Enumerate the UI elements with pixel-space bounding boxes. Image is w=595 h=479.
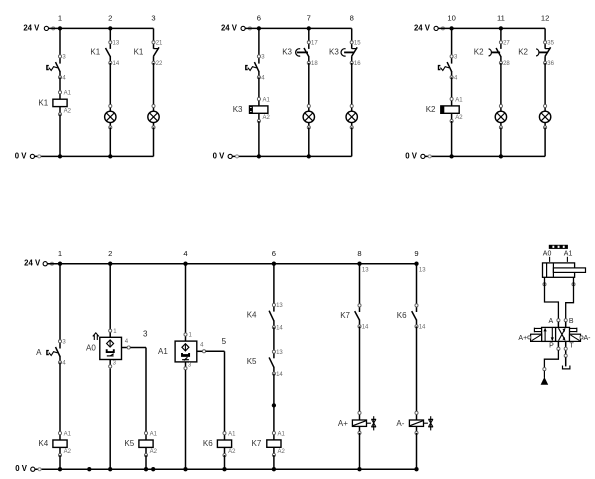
pushbutton S3 pins 3-4 <box>439 55 459 82</box>
node: junction col8/0V <box>357 467 361 471</box>
indicator lamp H1 <box>105 104 116 129</box>
svg-text:24 V: 24 V <box>23 23 40 32</box>
node: junction col9/24V <box>414 262 418 266</box>
wire: column 6 rail to pushbutton <box>258 28 260 56</box>
node: junction col10/24V <box>449 26 453 30</box>
24V supply terminal lower circuit <box>24 259 53 268</box>
svg-text:P: P <box>549 342 554 349</box>
wire: col1 rail to pushbutton A <box>59 264 61 342</box>
node: rail segment junction <box>151 467 155 471</box>
wire: 0V rail circuit 3 <box>425 155 545 157</box>
wire: contact K5 down to coil K7 <box>273 374 275 433</box>
svg-text:0 V: 0 V <box>15 464 28 473</box>
wire: cylinder right port to valve port B <box>566 277 574 318</box>
node: junction col1/0V <box>58 467 62 471</box>
svg-text:36: 36 <box>547 61 554 67</box>
wire: column 11 rail to contact <box>500 28 502 42</box>
valve port B <box>564 318 574 328</box>
0V supply terminal circuit 1 <box>15 151 41 160</box>
svg-text:A1: A1 <box>150 431 158 437</box>
exhaust outlet <box>563 366 570 369</box>
wire: lamp to 0V rail <box>153 127 155 156</box>
svg-text:9: 9 <box>414 249 418 258</box>
node: junction col1/24V <box>58 26 62 30</box>
svg-text:A1: A1 <box>64 91 72 97</box>
node: junction col6/24V <box>257 26 261 30</box>
wire: lamp to 0V rail <box>544 127 546 156</box>
node: rail segment junction <box>87 467 91 471</box>
wire: contact K4 to contact K5 <box>273 327 275 352</box>
svg-text:K5: K5 <box>247 357 257 366</box>
svg-text:K7: K7 <box>252 439 262 448</box>
wire: column 7 rail to contact <box>308 28 310 42</box>
node: junction col11/0V <box>499 154 503 158</box>
wire: col2 rail to sensor A0 <box>109 264 111 331</box>
svg-text:24 V: 24 V <box>24 259 41 268</box>
valve solenoid A+ <box>338 411 376 434</box>
24V supply terminal circuit 3 <box>414 23 444 32</box>
wire: port P to pressure source <box>544 350 558 367</box>
wire: lamp to 0V rail <box>308 127 310 156</box>
svg-text:K2: K2 <box>426 105 436 114</box>
wire: coil K7 to 0V rail <box>273 455 275 469</box>
relay coil K1 A1-A2 <box>38 91 71 116</box>
svg-text:K5: K5 <box>124 439 134 448</box>
node: junction col4/24V <box>183 262 187 266</box>
svg-text:K3: K3 <box>282 48 292 57</box>
svg-text:24 V: 24 V <box>221 23 238 32</box>
wire: coil K2 to 0V rail <box>451 121 453 156</box>
svg-text:11: 11 <box>497 14 505 23</box>
svg-text:8: 8 <box>350 14 354 23</box>
svg-text:A0: A0 <box>86 343 96 352</box>
NC contact K1 pins 21-22 <box>134 41 163 68</box>
svg-text:K3: K3 <box>233 105 243 114</box>
wire: lamp to 0V rail <box>351 127 353 156</box>
svg-text:8: 8 <box>357 249 361 258</box>
svg-text:A: A <box>36 348 42 357</box>
node: junction col6/0V <box>272 467 276 471</box>
position arrow marker at A0 <box>93 333 99 340</box>
svg-text:B: B <box>569 318 574 325</box>
node: junction col6/24V <box>272 262 276 266</box>
svg-text:A: A <box>549 318 554 325</box>
node: junction col5/0V <box>222 467 226 471</box>
node: junction col10/0V <box>449 154 453 158</box>
detent mechanism right <box>570 328 577 333</box>
off-delay timer relay coil K2 A1-A2 <box>426 97 463 122</box>
wire: 24V rail circuit 1 <box>49 27 154 29</box>
wire: contact K6 to solenoid A- <box>416 326 418 413</box>
svg-text:24 V: 24 V <box>414 23 431 32</box>
svg-text:A1: A1 <box>564 251 573 258</box>
svg-text:3: 3 <box>151 14 155 23</box>
svg-text:K7: K7 <box>340 311 350 320</box>
svg-text:K4: K4 <box>247 310 257 319</box>
svg-text:A1: A1 <box>455 97 463 103</box>
NO contact K7 pins 13-14 <box>340 304 369 331</box>
wire: coil K1 to 0V rail <box>59 114 61 156</box>
node: junction col7/24V <box>307 26 311 30</box>
svg-text:2: 2 <box>108 14 112 23</box>
svg-text:14: 14 <box>113 61 120 67</box>
wire: contact K2 to lamp <box>500 63 502 106</box>
wire: contact K3 to lamp <box>308 63 310 106</box>
4/2-way double solenoid impulse valve <box>542 327 570 341</box>
pushbutton A pins 3-4 <box>36 340 66 367</box>
0V supply terminal circuit 2 <box>213 151 239 160</box>
svg-text:14: 14 <box>276 372 283 378</box>
svg-text:13: 13 <box>419 268 426 274</box>
node: junction col7/0V <box>307 154 311 158</box>
wire: pushbutton to coil K3 <box>258 77 260 99</box>
0V supply terminal circuit 3 <box>405 151 431 160</box>
pushbutton S1 pins 3-4 <box>47 55 67 82</box>
wire: NC contact to lamp <box>351 63 353 106</box>
wire: sensor A1 pin3 to 0V rail <box>185 370 187 469</box>
NO contact K5 pins 13-14 <box>247 350 284 378</box>
wire: column 2 rail to contact K1 <box>109 28 111 42</box>
svg-text:35: 35 <box>547 41 554 47</box>
svg-text:14: 14 <box>276 325 283 331</box>
svg-text:K6: K6 <box>203 439 213 448</box>
off-delay NC contact K2 pins 35-36 <box>518 41 554 68</box>
double-acting cylinder A <box>543 263 586 286</box>
off-delay NO contact K2 pins 27-28 <box>474 41 511 68</box>
wire: lamp to 0V rail <box>109 127 111 156</box>
svg-text:1: 1 <box>58 249 62 258</box>
svg-text:13: 13 <box>362 268 369 274</box>
svg-text:K1: K1 <box>38 98 48 107</box>
node: junction col6/0V <box>257 154 261 158</box>
wire: col4 rail to sensor A1 <box>185 264 187 335</box>
wire: 24V rail circuit 2 <box>245 27 351 29</box>
wire: pushbutton to coil K2 <box>451 77 453 99</box>
wire: contact K7 to solenoid A+ <box>359 326 361 413</box>
node: junction col2/24V <box>108 26 112 30</box>
node: junction col1/0V <box>58 154 62 158</box>
wire: 0V rail circuit 2 <box>233 155 352 157</box>
wire: NC contact to lamp <box>544 63 546 106</box>
svg-text:K3: K3 <box>329 48 339 57</box>
svg-text:A2: A2 <box>64 449 72 455</box>
svg-text:0 V: 0 V <box>213 151 226 160</box>
svg-text:22: 22 <box>156 61 163 67</box>
wire: net 5 down to coil K6 <box>224 351 226 433</box>
valve port P <box>549 341 560 350</box>
wire: contact K1 to lamp <box>109 63 111 106</box>
wire: coil K3 to 0V rail <box>258 121 260 156</box>
24V supply terminal circuit 2 <box>221 23 251 32</box>
svg-text:A2: A2 <box>228 449 236 455</box>
svg-text:18: 18 <box>311 61 318 67</box>
valve solenoid A- <box>396 411 433 434</box>
wire: column 10 rail to pushbutton <box>451 28 453 56</box>
svg-text:A2: A2 <box>150 449 158 455</box>
wire: 0V rail lower circuit <box>35 468 416 470</box>
wire: solenoid A+ to 0V rail <box>359 433 361 469</box>
node: wire junction col6 <box>272 403 276 407</box>
on-delay NO contact K3 pins 17-18 <box>282 41 318 68</box>
svg-text:27: 27 <box>503 41 510 47</box>
wire: column 12 rail to contact <box>544 28 546 42</box>
svg-text:0 V: 0 V <box>405 151 418 160</box>
wire: column 3 rail to contact <box>153 28 155 42</box>
svg-text:14: 14 <box>419 325 426 331</box>
node: junction col4/0V <box>183 467 187 471</box>
node: junction col8/24V <box>357 262 361 266</box>
NO contact K1 pins 13-14 <box>90 41 119 68</box>
svg-text:A+: A+ <box>518 335 527 342</box>
svg-text:3: 3 <box>143 330 148 339</box>
wire: col9 rail to contact K6 <box>416 264 418 306</box>
node: junction col1/24V <box>58 262 62 266</box>
wire: solenoid A- to 0V rail <box>416 433 418 469</box>
wire: pushbutton to coil K1 <box>59 77 61 92</box>
svg-text:2: 2 <box>108 249 112 258</box>
wire: port T to exhaust <box>565 357 567 366</box>
svg-text:0 V: 0 V <box>15 151 28 160</box>
svg-text:21: 21 <box>156 41 163 47</box>
indicator lamp H2 <box>148 104 159 129</box>
node: junction col2/24V <box>108 262 112 266</box>
relay coil K7 A1-A2 <box>252 431 286 456</box>
wire: pushbutton A to coil K4 <box>59 362 61 433</box>
pilot solenoid A- on valve <box>570 334 592 342</box>
0V supply terminal lower circuit <box>15 464 41 473</box>
NO contact K4 pins 13-14 <box>247 303 284 331</box>
wire: coil K6 to 0V rail <box>224 455 226 469</box>
svg-text:A+: A+ <box>338 419 348 428</box>
svg-text:A0: A0 <box>543 251 552 258</box>
wire: cylinder left port to valve port A <box>545 277 559 318</box>
svg-text:1: 1 <box>58 14 62 23</box>
node: junction col2/0V <box>108 467 112 471</box>
svg-text:A2: A2 <box>278 449 286 455</box>
valve port A <box>549 318 560 328</box>
svg-text:10: 10 <box>447 14 455 23</box>
detent mechanism left <box>534 328 541 333</box>
pilot solenoid A+ on valve <box>518 334 541 342</box>
wire: 0V rail circuit 1 <box>35 155 154 157</box>
svg-text:A1: A1 <box>158 347 168 356</box>
svg-text:A1: A1 <box>263 97 271 103</box>
svg-text:16: 16 <box>354 61 361 67</box>
svg-text:6: 6 <box>257 14 261 23</box>
wire: coil K4 to 0V rail <box>59 455 61 469</box>
on-delay NC contact K3 pins 15-16 <box>329 41 361 68</box>
wire: 24V rail lower circuit <box>48 263 417 265</box>
svg-text:5: 5 <box>222 337 227 346</box>
svg-text:A1: A1 <box>64 431 72 437</box>
NO contact K6 pins 13-14 <box>397 304 426 331</box>
svg-text:4: 4 <box>183 249 187 258</box>
reed sensor A1 pins 1-4-3 <box>158 333 227 370</box>
reed sensor A0 pins 1-4-3 <box>86 329 148 368</box>
svg-text:A-: A- <box>396 419 404 428</box>
svg-text:13: 13 <box>276 303 283 309</box>
wire: column 1 rail to pushbutton <box>59 28 61 56</box>
indicator lamp H5 <box>495 104 506 129</box>
svg-text:K4: K4 <box>38 439 48 448</box>
node: junction col2/0V <box>108 154 112 158</box>
indicator lamp H3 <box>303 104 314 129</box>
wire: col6 rail to contact K4 <box>273 264 275 305</box>
24V supply terminal circuit 1 <box>23 23 54 32</box>
svg-text:13: 13 <box>113 41 120 47</box>
relay coil K6 A1-A2 <box>203 431 236 456</box>
svg-text:15: 15 <box>354 41 361 47</box>
indicator lamp H6 <box>539 104 550 129</box>
svg-text:A2: A2 <box>263 115 271 121</box>
valve port T <box>564 341 574 357</box>
svg-text:K2: K2 <box>518 48 528 57</box>
node: junction col9/0V <box>414 467 418 471</box>
wire: lamp to 0V rail <box>500 127 502 156</box>
wire: column 8 rail to contact <box>351 28 353 42</box>
svg-text:K6: K6 <box>397 311 407 320</box>
compressed air source <box>541 368 549 385</box>
pushbutton S2 pins 3-4 <box>246 55 265 82</box>
relay coil K5 A1-A2 <box>124 431 157 456</box>
wire: col8 rail to contact K7 <box>359 264 361 306</box>
svg-text:17: 17 <box>311 41 318 47</box>
svg-text:14: 14 <box>362 325 369 331</box>
svg-text:7: 7 <box>307 14 311 23</box>
svg-text:A1: A1 <box>278 431 286 437</box>
relay coil K4 A1-A2 <box>38 431 71 456</box>
cylinder position scale with sensors A0 A1 <box>543 245 573 262</box>
svg-text:13: 13 <box>276 350 283 356</box>
on-delay timer relay coil K3 A1-A2 <box>233 97 271 122</box>
indicator lamp H4 <box>346 104 357 129</box>
wire: 24V rail circuit 3 <box>438 27 545 29</box>
svg-text:A2: A2 <box>455 115 463 121</box>
svg-text:A2: A2 <box>64 108 72 114</box>
wire: net 3 down to coil K5 <box>145 348 147 434</box>
svg-text:12: 12 <box>541 14 549 23</box>
wire: coil K5 to 0V rail <box>145 455 147 469</box>
svg-text:A-: A- <box>584 335 592 342</box>
wire: NC contact to lamp <box>153 63 155 106</box>
node: junction col3/0V <box>144 467 148 471</box>
svg-text:A1: A1 <box>228 431 236 437</box>
svg-text:28: 28 <box>503 61 510 67</box>
svg-text:K2: K2 <box>474 48 484 57</box>
svg-text:K1: K1 <box>134 48 144 57</box>
svg-text:K1: K1 <box>90 48 100 57</box>
node: junction col11/24V <box>499 26 503 30</box>
wire: sensor A0 pin3 to 0V rail <box>109 368 111 469</box>
svg-text:6: 6 <box>272 249 276 258</box>
svg-text:T: T <box>570 342 575 349</box>
